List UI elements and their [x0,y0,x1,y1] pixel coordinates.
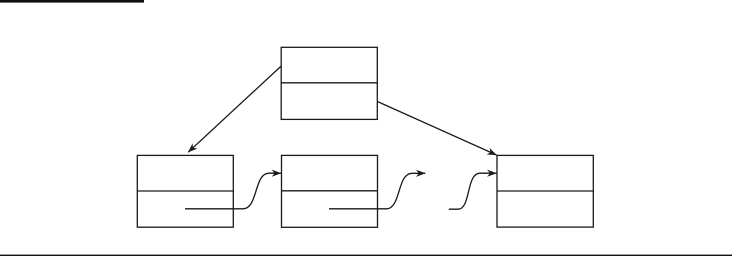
wire right child arrow [377,102,496,156]
node leaf2 box [282,155,378,227]
node leaf3 box [497,155,593,227]
header rule [0,0,144,3]
node root box [281,47,377,119]
wire continuation arrow [449,173,497,209]
wire leaf2 next pointer [329,173,425,209]
wire leaf1 next pointer [185,173,281,209]
footer rule [0,255,732,256]
wire left child arrow [188,66,281,152]
node leaf1 box [137,155,233,227]
